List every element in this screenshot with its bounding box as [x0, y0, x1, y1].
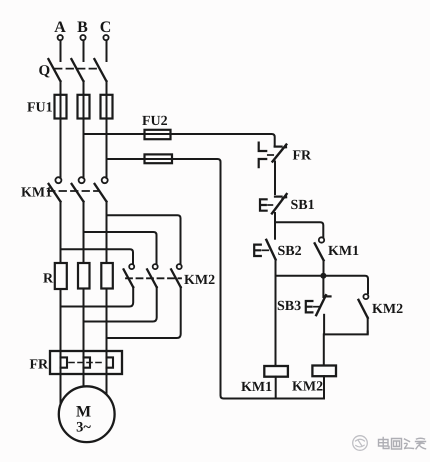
wire SB2/KM1 bottom bus	[276, 276, 369, 294]
contactor KM1 main pole C contact circle	[102, 177, 108, 183]
svg-text:A: A	[54, 19, 66, 36]
wire KM1 branch down to KM1 coil	[275, 276, 277, 366]
pushbutton SB2 NO blade	[266, 240, 275, 260]
switch Q pole C blade	[94, 59, 106, 81]
wire FR to SB1	[274, 162, 276, 195]
watermark logo circle	[353, 436, 368, 451]
thermal relay FR heater element pole C	[107, 357, 114, 367]
wire SB3/KM2 bottom bus	[324, 332, 368, 335]
svg-text:B: B	[77, 19, 88, 36]
thermal relay FR heater link (dashed)	[69, 362, 105, 364]
svg-text:FU1: FU1	[27, 101, 53, 116]
svg-text:KM1: KM1	[328, 244, 359, 259]
svg-text:KM2: KM2	[292, 380, 323, 395]
pushbutton SB1 NC tick	[275, 196, 282, 198]
watermark text (grey)	[379, 438, 426, 450]
contactor KM1 aux contact circle	[319, 237, 324, 242]
thermal relay FR NC contact tick	[275, 146, 282, 148]
wire branch phase A to KM2 bypass pole 1	[61, 249, 134, 264]
thermal relay FR NC contact blade	[273, 145, 287, 162]
wire phase B switch to fuse FU1	[83, 81, 85, 178]
wire KM2 coil bottom lead	[323, 376, 325, 398]
contactor KM2 bypass pole 3 contact circle	[177, 264, 182, 269]
wire KM2 aux bottom lead	[367, 318, 369, 334]
wire branch phase C to KM2 bypass pole 3	[107, 215, 181, 264]
thermal relay FR heater element pole A	[61, 357, 68, 367]
svg-text:R: R	[43, 272, 54, 287]
coil KM1 body	[264, 366, 288, 377]
contactor KM2 aux contact circle	[363, 294, 368, 299]
junction node dot	[320, 273, 326, 279]
wire phase C from terminal to switch Q	[106, 40, 108, 61]
motor M circle	[59, 386, 115, 442]
fuse FU1 pole A body	[55, 95, 67, 119]
wire KM1 aux bottom lead	[323, 260, 325, 276]
terminal circle C	[103, 35, 108, 40]
fuse FU2 upper body	[145, 130, 171, 139]
switch Q mechanical link (dashed)	[55, 68, 101, 70]
svg-text:Q: Q	[39, 63, 51, 79]
wire phase B KM1 to resistor R	[83, 202, 85, 264]
wire KM2 bypass pole 1 return to phase A	[61, 287, 134, 307]
wire phase B through FR to motor	[83, 351, 85, 387]
terminal circle B	[80, 35, 85, 40]
wire SB3 bus down to KM2 coil	[323, 334, 325, 365]
pushbutton SB1 actuator dash	[268, 204, 272, 206]
svg-text:C: C	[100, 19, 112, 36]
wire SB2 top lead	[274, 222, 276, 238]
wire control tap from phase C to FU2 lower	[107, 159, 325, 399]
pushbutton SB1 NC blade arrowhead	[281, 193, 288, 199]
switch Q pole B blade	[71, 59, 83, 81]
wire phase B from terminal to switch Q	[83, 40, 85, 61]
switch Q pole A blade	[48, 59, 60, 81]
wire KM1 coil bottom lead	[275, 377, 277, 399]
svg-text:KM1: KM1	[21, 186, 52, 201]
contactor KM1 main pole A blade	[49, 184, 61, 202]
wire KM2 bypass pole 3 return to phase C	[107, 287, 181, 338]
wire phase A through FR to motor	[60, 351, 62, 403]
wire SB3 bottom lead	[323, 315, 325, 335]
resistor R pole C body	[101, 263, 113, 289]
contactor KM1 main pole B contact circle	[79, 177, 85, 183]
svg-text:M: M	[76, 404, 91, 421]
svg-text:FR: FR	[30, 358, 50, 373]
wire phase A resistor to FR box	[60, 289, 62, 351]
wire phase C through FR to motor	[106, 351, 108, 397]
svg-text:KM2: KM2	[372, 302, 403, 317]
wire control tap from phase B to FU2 upper	[84, 134, 275, 146]
wire phase C resistor to FR box	[106, 289, 108, 352]
contactor KM1 main pole B blade	[72, 184, 84, 202]
svg-text:3~: 3~	[76, 420, 91, 436]
pushbutton SB3 NC tick	[324, 295, 331, 297]
pushbutton SB3 actuator E	[306, 301, 313, 312]
svg-text:KM1: KM1	[241, 380, 272, 395]
thermal relay FR NC blade arrowhead	[281, 144, 287, 149]
wire phase C switch to fuse FU1	[106, 81, 108, 178]
thermal relay FR element-to-contact dash	[268, 154, 273, 156]
pushbutton SB3 NC blade	[316, 295, 326, 315]
contactor KM2 bypass pole 1 contact circle	[129, 264, 134, 269]
svg-text:KM2: KM2	[184, 273, 215, 288]
contactor KM2 bypass pole 1 blade	[124, 269, 134, 287]
svg-text:SB3: SB3	[277, 299, 301, 314]
wire phase A from terminal to switch Q	[60, 40, 62, 61]
thermal relay FR box	[50, 351, 122, 374]
contactor KM2 bypass pole 2 blade	[147, 269, 157, 287]
contactor KM1 main pole A contact circle	[55, 177, 61, 183]
coil KM2 body	[312, 366, 336, 377]
terminal circle A	[58, 35, 63, 40]
svg-text:FU2: FU2	[142, 114, 168, 129]
svg-text:SB1: SB1	[291, 198, 315, 213]
wire phase B resistor to FR box	[83, 289, 85, 352]
wire SB1 down to split node	[274, 213, 276, 222]
wire branch phase B to KM2 bypass pole 2	[84, 232, 157, 264]
wire KM2 bypass pole 2 return to phase B	[84, 287, 157, 322]
wire SB3 top lead	[322, 276, 324, 297]
contactor KM1 aux NO blade	[315, 243, 324, 260]
pushbutton SB1 NC blade	[272, 194, 287, 213]
svg-text:SB2: SB2	[278, 244, 302, 259]
fuse FU1 pole B body	[78, 95, 90, 119]
wire split node to KM1 aux branch	[275, 222, 323, 237]
wire SB2 bottom lead	[275, 259, 277, 275]
wire phase A switch to fuse FU1	[60, 81, 62, 178]
contactor KM2 bypass mechanical link (dashed)	[126, 277, 181, 279]
pushbutton SB2 actuator E	[254, 245, 261, 256]
thermal relay FR heat element symbol	[259, 143, 267, 168]
contactor KM2 aux NO blade	[359, 300, 368, 318]
contactor KM2 bypass pole 3 blade	[171, 269, 181, 287]
thermal relay FR heater element pole B	[84, 357, 91, 367]
resistor R pole B body	[78, 263, 90, 289]
wire phase C KM1 to resistor R	[106, 202, 108, 264]
resistor R pole A body	[55, 263, 67, 289]
pushbutton SB2 actuator dash	[262, 249, 268, 251]
fuse FU2 lower body	[145, 154, 173, 163]
contactor KM2 bypass pole 2 contact circle	[153, 264, 158, 269]
wire phase A KM1 to resistor R	[60, 202, 62, 264]
pushbutton SB3 actuator dash	[314, 306, 319, 308]
contactor KM1 main mechanical link (dashed)	[48, 190, 98, 192]
fuse FU1 pole C body	[101, 95, 113, 119]
contactor KM1 main pole C blade	[95, 184, 107, 202]
pushbutton SB1 actuator E	[260, 199, 267, 210]
svg-text:FR: FR	[293, 149, 313, 164]
